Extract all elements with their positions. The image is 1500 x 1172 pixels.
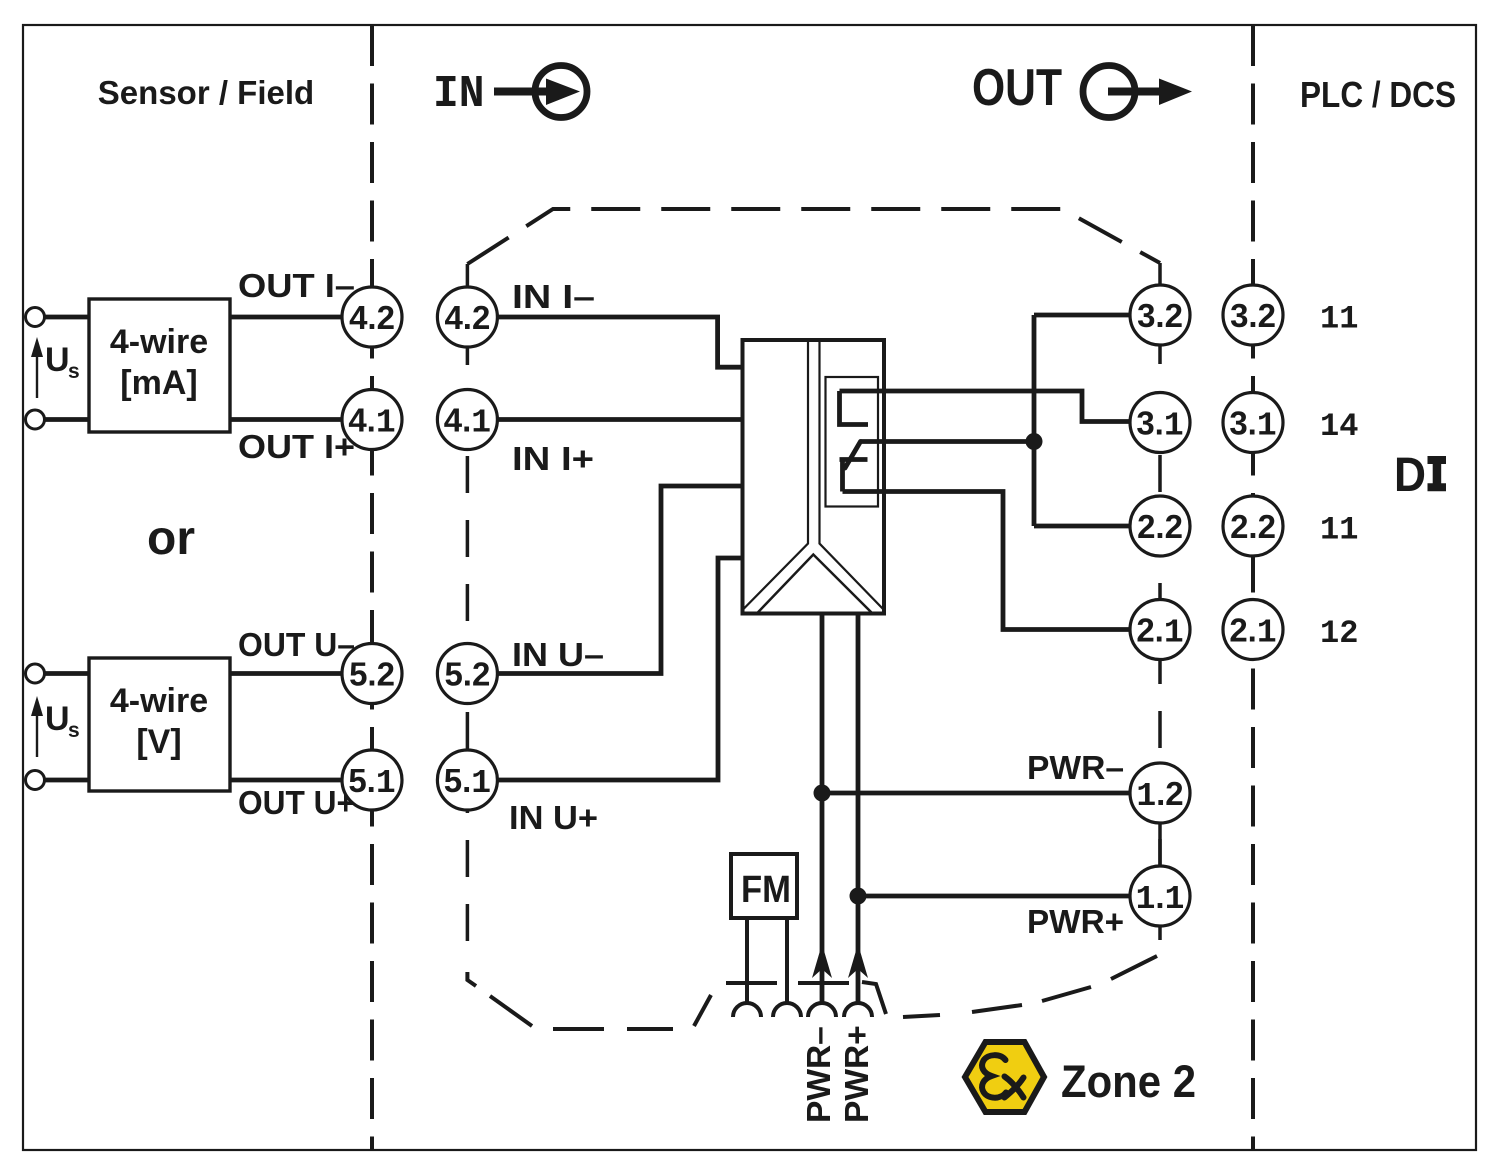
- Ex hexagon symbol: [965, 1042, 1044, 1112]
- zone 2 boundary left vertical (inner IN terminal column): [466, 264, 470, 966]
- wire sensor1 top: [45, 315, 344, 320]
- svg-text:IN U+: IN U+: [509, 799, 598, 836]
- separator PLC/DCS dashed line: [1251, 25, 1255, 1150]
- wire PWR- vertical from device: [820, 614, 825, 1004]
- svg-text:OUT I–: OUT I–: [238, 267, 355, 304]
- junction dot PWR-: [814, 785, 831, 802]
- arrowhead PWR- up: [812, 944, 832, 978]
- svg-text:[V]: [V]: [136, 723, 181, 761]
- wire IN I-: [497, 317, 743, 367]
- zone 2 boundary corner dash down: [862, 982, 886, 1014]
- 4-wire [V] sensor box: [89, 658, 230, 791]
- svg-text:2.1: 2.1: [1136, 612, 1183, 652]
- svg-text:3.1: 3.1: [1136, 405, 1183, 445]
- FM wire 2: [785, 918, 789, 1003]
- svg-text:s: s: [68, 360, 80, 383]
- svg-text:U: U: [45, 341, 70, 379]
- wire to 1.2: [822, 791, 1130, 796]
- zone 2 boundary bar dash c: [726, 981, 777, 985]
- zone 2 boundary rising diagonal dash: [694, 995, 711, 1026]
- device body: [743, 340, 885, 614]
- connector 1.2 to 1.1: [1158, 820, 1162, 870]
- terminal circle out 3.2: [1130, 285, 1190, 345]
- terminal circle plc 3.1: [1223, 393, 1283, 453]
- svg-text:5.2: 5.2: [349, 656, 395, 693]
- terminal circle plc 2.1: [1223, 600, 1283, 660]
- plug socket arc 2: [773, 1003, 801, 1017]
- relay fixed contact bottom bar: [840, 460, 868, 492]
- junction dot relay common: [1026, 433, 1043, 450]
- terminal circle field 5.1: [342, 750, 402, 810]
- svg-text:1.1: 1.1: [1136, 878, 1185, 918]
- arrowhead PWR+ up: [848, 944, 868, 978]
- svg-text:12: 12: [1320, 615, 1358, 652]
- zone 2 boundary bottom left elbow: [467, 972, 476, 986]
- device internal chevron: [757, 555, 872, 614]
- svg-text:Sensor / Field: Sensor / Field: [98, 74, 314, 111]
- wire IN U-: [497, 486, 743, 674]
- svg-text:U: U: [45, 700, 70, 738]
- svg-text:5.2: 5.2: [444, 656, 490, 693]
- zone 2 boundary curve dash 2: [972, 1005, 1022, 1012]
- svg-text:3.1: 3.1: [1229, 405, 1276, 445]
- terminal circle out 2.2: [1130, 496, 1190, 556]
- junction dot PWR+: [850, 888, 867, 905]
- wire sensor1 bottom: [45, 417, 344, 422]
- Us arrow 1: [31, 337, 43, 398]
- svg-text:2.2: 2.2: [1230, 508, 1276, 545]
- zone 2 boundary bottom dash b: [627, 1027, 673, 1031]
- svg-text:PLC / DCS: PLC / DCS: [1300, 74, 1456, 115]
- svg-text:OUT: OUT: [972, 59, 1062, 117]
- svg-text:IN I–: IN I–: [512, 278, 595, 315]
- svg-text:IN U–: IN U–: [512, 636, 604, 673]
- svg-text:5.1: 5.1: [348, 762, 395, 802]
- Us arrow 2: [31, 696, 43, 757]
- svg-text:4.2: 4.2: [349, 299, 395, 336]
- terminal circle plc 3.2: [1223, 285, 1283, 345]
- svg-text:OUT U–: OUT U–: [238, 626, 355, 663]
- terminal circle field 5.2: [342, 644, 402, 704]
- zone 2 boundary curve dash 3: [1042, 987, 1091, 1001]
- terminal circle in 5.2: [437, 644, 497, 704]
- header OUT arrow icon: [1083, 66, 1192, 118]
- FM box: [731, 854, 797, 918]
- wire PWR+ vertical from device: [856, 614, 861, 1004]
- device internal channel lines: [743, 340, 885, 610]
- svg-text:[mA]: [mA]: [120, 364, 197, 402]
- terminal circle out 1.2: [1130, 763, 1190, 823]
- zone 2 boundary top: [467, 209, 1160, 264]
- svg-text:FM: FM: [741, 869, 791, 911]
- terminal circle out 1.1: [1130, 866, 1190, 926]
- svg-text:PWR+: PWR+: [1027, 903, 1124, 940]
- wire IN I+: [497, 417, 743, 422]
- wire to 1.1: [858, 894, 1130, 899]
- terminal circle in 4.1: [437, 390, 497, 450]
- wire relay to 2.1: [843, 492, 1130, 630]
- wire IN U+: [497, 558, 743, 780]
- wire sensor2 top: [45, 671, 344, 676]
- terminal circle field 4.2: [342, 287, 402, 347]
- relay element box: [826, 377, 879, 507]
- wire relay common to junction: [861, 439, 1035, 444]
- plug socket arc 1: [733, 1003, 761, 1017]
- zone 2 boundary curve dash 1: [903, 1015, 940, 1017]
- svg-text:3.2: 3.2: [1137, 297, 1183, 334]
- sensor terminal circle bottom-left 2: [26, 771, 45, 790]
- svg-text:4-wire: 4-wire: [110, 323, 208, 361]
- svg-text:PWR–: PWR–: [801, 1026, 838, 1123]
- wire junction vertical 3.2 / 2.2: [1034, 315, 1130, 526]
- wire sensor2 bottom: [45, 778, 344, 783]
- svg-text:OUT I+: OUT I+: [238, 428, 355, 465]
- svg-text:s: s: [68, 719, 80, 742]
- sensor terminal circle top-left 2: [26, 410, 45, 429]
- svg-text:IN: IN: [433, 69, 485, 120]
- zone 2 boundary bar dash d: [798, 981, 849, 985]
- relay moving contact lever: [845, 442, 861, 469]
- svg-text:or: or: [147, 512, 195, 565]
- svg-text:1.2: 1.2: [1136, 775, 1183, 815]
- svg-text:4.1: 4.1: [348, 402, 395, 442]
- svg-text:14: 14: [1320, 408, 1358, 445]
- zone 2 boundary right vertical (inner OUT terminal column): [1158, 263, 1162, 950]
- svg-text:D: D: [1394, 449, 1426, 502]
- zone 2 boundary curve dash 4: [1111, 956, 1157, 979]
- svg-text:5.1: 5.1: [444, 762, 491, 802]
- zone 2 boundary bottom dash a: [553, 1027, 604, 1031]
- terminal circle in 4.2: [437, 287, 497, 347]
- svg-text:4-wire: 4-wire: [110, 682, 208, 720]
- terminal circle field 4.1: [342, 390, 402, 450]
- separator sensor/field dashed line: [370, 25, 374, 1150]
- sensor terminal circle bottom-left 1: [26, 664, 45, 683]
- terminal circle plc 2.2: [1223, 496, 1283, 556]
- relay fixed contact top hook: [840, 391, 869, 425]
- svg-text:11: 11: [1320, 301, 1358, 338]
- svg-text:2.1: 2.1: [1229, 612, 1276, 652]
- svg-text:11: 11: [1320, 512, 1358, 549]
- svg-text:OUT U+: OUT U+: [238, 784, 355, 821]
- 4-wire [mA] sensor box: [89, 299, 230, 432]
- wire relay to 3.1: [840, 391, 1130, 422]
- sensor terminal circle top-left 1: [26, 308, 45, 327]
- svg-text:2.2: 2.2: [1137, 508, 1183, 545]
- svg-text:IN I+: IN I+: [512, 440, 594, 477]
- svg-text:PWR–: PWR–: [1027, 749, 1124, 786]
- svg-text:Zone 2: Zone 2: [1061, 1056, 1196, 1107]
- terminal circle in 5.1: [437, 750, 497, 810]
- zone 2 boundary bottom left diagonal dash: [490, 996, 532, 1026]
- svg-text:4.1: 4.1: [444, 402, 491, 442]
- svg-text:PWR+: PWR+: [839, 1025, 876, 1123]
- header IN arrow icon: [494, 66, 587, 118]
- terminal circle out 2.1: [1130, 600, 1190, 660]
- terminal circle out 3.1: [1130, 393, 1190, 453]
- FM wire 1: [745, 918, 749, 1003]
- plug socket arc 3: [808, 1003, 836, 1017]
- plug socket arc 4: [844, 1003, 872, 1017]
- svg-text:3.2: 3.2: [1230, 297, 1276, 334]
- svg-text:4.2: 4.2: [444, 299, 490, 336]
